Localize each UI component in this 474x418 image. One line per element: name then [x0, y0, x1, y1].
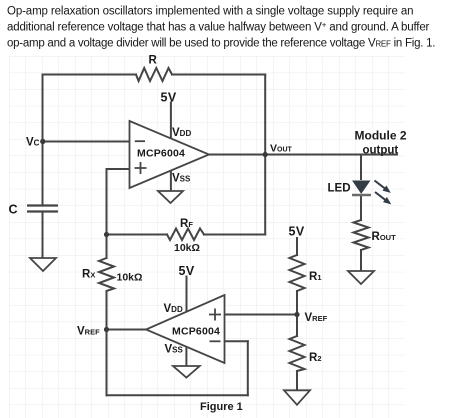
- LED D1: [352, 181, 391, 205]
- op-amp U2 MCP6004 buffer: [146, 295, 225, 363]
- wire capacitor to ground: [42, 212, 44, 259]
- wire VOUT to LED: [360, 155, 362, 180]
- resistor Rx: [99, 258, 114, 291]
- svg-text:VREF: VREF: [77, 326, 100, 338]
- wire ROUT to ground: [360, 250, 362, 271]
- svg-text:MCP6004: MCP6004: [137, 148, 185, 160]
- svg-text:5V: 5V: [161, 91, 177, 105]
- svg-text:5V: 5V: [289, 225, 305, 239]
- wire U1 VDD supply: [170, 103, 172, 139]
- svg-text:RF: RF: [180, 218, 193, 230]
- paragraph text: [7, 6, 435, 50]
- ground under U2: [173, 366, 200, 378]
- ground under U1: [158, 191, 183, 203]
- resistor ROUT: [354, 220, 369, 250]
- svg-text:R1: R1: [309, 271, 321, 283]
- wire top-right horizontal: [172, 74, 265, 76]
- node RF junction: [104, 232, 109, 237]
- svg-text:10kΩ: 10kΩ: [174, 242, 200, 254]
- svg-text:VDD: VDD: [172, 127, 191, 139]
- svg-text:RX: RX: [82, 269, 95, 281]
- svg-text:output: output: [363, 145, 399, 157]
- svg-text:VREF: VREF: [305, 312, 328, 324]
- svg-text:op-amp and a voltage divider w: op-amp and a voltage divider will be use…: [7, 38, 435, 50]
- wire right vertical from R to RF: [264, 75, 266, 235]
- resistor R2: [290, 336, 305, 371]
- node VREF right junction: [294, 312, 299, 317]
- svg-text:10kΩ: 10kΩ: [117, 272, 143, 284]
- wire VREF node to U2 output tip: [107, 329, 147, 331]
- wire R1 to VREF node: [296, 291, 298, 315]
- svg-text:VDD: VDD: [164, 303, 183, 315]
- svg-text:VSS: VSS: [165, 344, 184, 356]
- ground under ROUT: [348, 271, 374, 284]
- wire Vc node to U1 inverting input: [43, 141, 130, 143]
- svg-text:additional reference voltage t: additional reference voltage that has a …: [7, 21, 430, 34]
- label Module 2 output: [355, 129, 407, 157]
- svg-text:VSS: VSS: [172, 173, 191, 185]
- svg-text:5V: 5V: [179, 264, 195, 278]
- node Vc junction: [40, 139, 45, 144]
- wire left vertical from top to capacitor: [42, 75, 44, 206]
- wire LED to ROUT: [360, 195, 362, 220]
- resistor R: [136, 68, 172, 81]
- node VREF left junction: [104, 327, 109, 332]
- wire feedback bottom: [107, 394, 248, 396]
- resistor R1: [290, 255, 305, 291]
- wire R2 to ground: [296, 371, 298, 390]
- resistor RF: [167, 229, 204, 241]
- wire U2 VDD supply: [186, 277, 188, 312]
- ground under capacitor: [30, 258, 56, 271]
- svg-text:R: R: [149, 55, 158, 67]
- wire RF node to Rx: [106, 235, 108, 259]
- svg-text:LED: LED: [328, 183, 351, 195]
- capacitor C: [27, 206, 58, 212]
- op-amp U1 MCP6004: [130, 121, 210, 188]
- wire RF resistor to right vertical: [204, 234, 265, 236]
- wire U1 output to Module 2: [209, 154, 397, 156]
- wire VREF node to R2: [296, 315, 298, 337]
- wire top-left horizontal: [43, 74, 137, 76]
- ground under R2: [284, 390, 310, 405]
- wire U2 VSS to ground: [185, 347, 187, 366]
- node VOUT junction: [263, 152, 268, 157]
- svg-text:R2: R2: [309, 352, 321, 364]
- svg-text:Figure 1: Figure 1: [200, 401, 243, 413]
- wire U1 noninverting input vertical to RF node: [106, 169, 108, 235]
- wire U1 VSS to ground: [170, 171, 172, 192]
- wire VREF node down left side of feedback loop: [106, 330, 108, 396]
- wire U2 noninverting input to VREF divider node: [225, 314, 298, 316]
- wire feedback to U2 inverting input: [225, 340, 248, 342]
- svg-text:MCP6004: MCP6004: [172, 326, 220, 338]
- wire 5V to R1: [296, 238, 298, 255]
- svg-text:Op-amp relaxation oscillators: Op-amp relaxation oscillators implemente…: [7, 6, 413, 18]
- wire RF node to RF resistor: [107, 234, 168, 236]
- wire U1 noninverting input horizontal: [107, 168, 130, 170]
- wire Rx to VREF node: [106, 291, 108, 330]
- svg-text:ROUT: ROUT: [372, 231, 397, 243]
- svg-text:C: C: [9, 203, 18, 217]
- svg-text:Module 2: Module 2: [355, 129, 407, 143]
- grid background: [9, 56, 405, 418]
- svg-text:VC: VC: [26, 137, 40, 149]
- wire feedback right vertical: [247, 341, 249, 395]
